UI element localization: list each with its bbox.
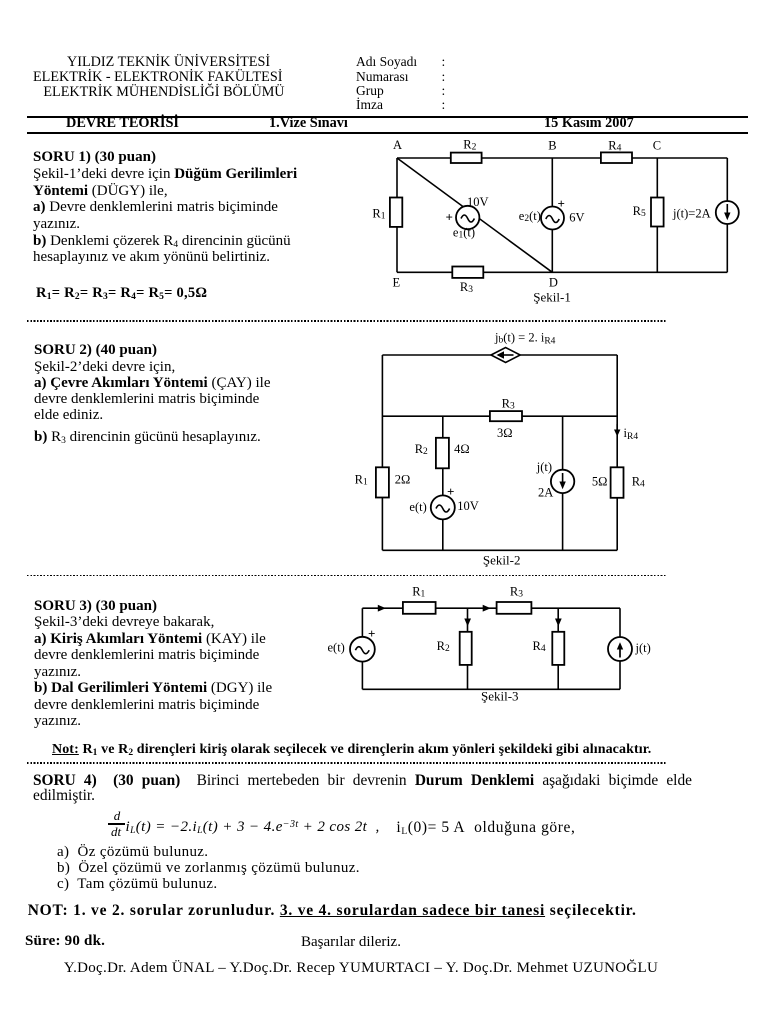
svg-text:+: + [368,626,375,641]
svg-text:2A: 2A [538,486,553,500]
svg-text:R1: R1 [372,207,385,222]
svg-text:10V: 10V [457,499,479,513]
svg-text:+: + [447,484,454,499]
svg-text:R3: R3 [510,585,523,600]
svg-text:D: D [549,276,558,290]
svg-text:2Ω: 2Ω [395,472,411,486]
svg-text:e(t): e(t) [328,641,345,655]
svg-text:4Ω: 4Ω [454,442,470,456]
svg-text:j(t)=2A: j(t)=2A [672,207,711,221]
svg-text:C: C [653,139,661,153]
svg-text:e(t): e(t) [409,500,426,514]
svg-text:j(t): j(t) [536,460,552,474]
svg-text:R4: R4 [632,475,645,490]
svg-text:R4: R4 [608,138,621,153]
svg-text:R5: R5 [633,204,646,219]
svg-text:Şekil-3: Şekil-3 [481,688,519,703]
svg-text:B: B [548,138,556,152]
svg-text:jb(t) = 2. iR4: jb(t) = 2. iR4 [494,330,556,346]
svg-text:Şekil-2: Şekil-2 [483,553,521,568]
svg-text:j(t): j(t) [635,641,651,655]
svg-text:iR4: iR4 [624,426,639,442]
svg-text:5Ω: 5Ω [592,475,608,489]
svg-text:R2: R2 [437,639,450,654]
svg-text:10V: 10V [467,195,489,209]
svg-text:e2(t): e2(t) [519,209,541,224]
svg-text:R3: R3 [460,280,473,295]
svg-text:3Ω: 3Ω [497,426,513,440]
svg-text:+: + [558,196,565,211]
svg-text:A: A [393,138,402,152]
svg-text:R4: R4 [533,639,546,654]
svg-text:R2: R2 [415,442,428,457]
svg-text:R1: R1 [355,472,368,487]
svg-text:E: E [393,276,401,290]
svg-text:6V: 6V [569,211,584,225]
svg-text:Şekil-1: Şekil-1 [533,290,571,305]
svg-text:+: + [446,210,453,225]
svg-text:R2: R2 [463,138,476,153]
svg-text:R3: R3 [502,397,515,412]
svg-text:e1(t): e1(t) [453,226,475,241]
svg-text:R1: R1 [412,585,425,600]
